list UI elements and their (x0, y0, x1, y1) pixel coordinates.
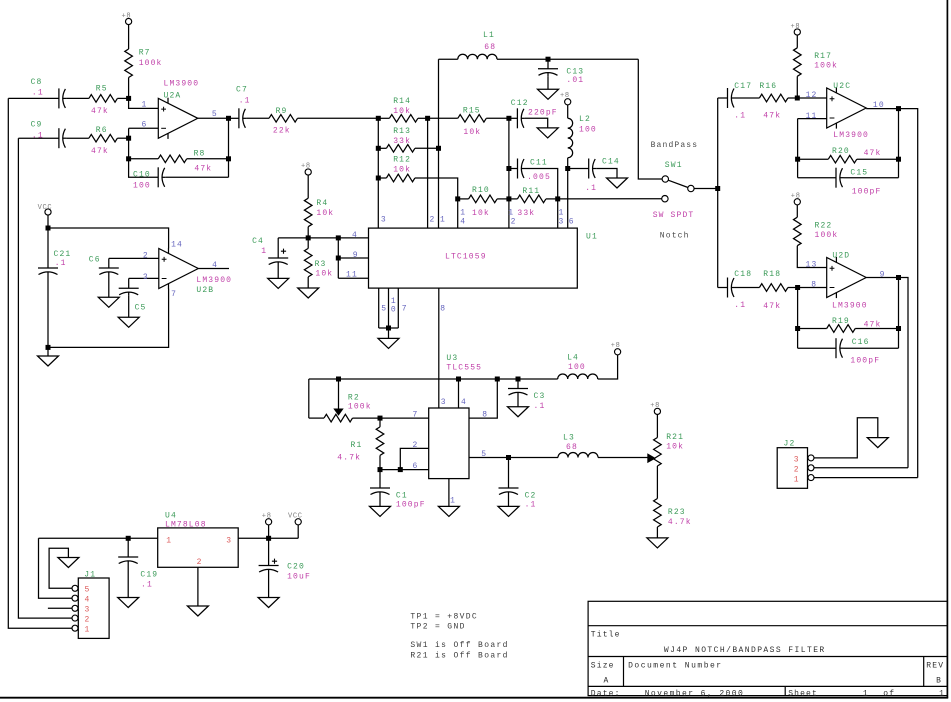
svg-text:68: 68 (566, 443, 578, 452)
wire (379, 327, 399, 329)
wire (128, 25, 130, 49)
title block frame (588, 601, 947, 695)
resistor R23 (654, 499, 662, 528)
wire (298, 117, 379, 119)
svg-text:J2: J2 (784, 440, 796, 449)
svg-text:2: 2 (430, 216, 436, 225)
ground (38, 356, 59, 366)
wire (469, 379, 497, 418)
svg-text:R8: R8 (194, 149, 206, 158)
svg-text:1: 1 (460, 209, 466, 218)
junction (376, 116, 381, 121)
wire (509, 198, 518, 200)
wire (128, 278, 130, 288)
wire (415, 178, 458, 199)
ground (438, 506, 459, 516)
wire (380, 417, 429, 419)
wire (109, 257, 159, 259)
svg-text:47k: 47k (91, 147, 109, 156)
svg-text:C4: C4 (252, 237, 264, 246)
wire (379, 470, 381, 488)
wire (899, 278, 909, 468)
svg-text:3: 3 (794, 456, 800, 465)
wire (308, 379, 310, 418)
wire (268, 538, 270, 565)
svg-text:220pF: 220pF (528, 109, 558, 118)
svg-text:5: 5 (481, 450, 487, 459)
svg-text:68: 68 (484, 43, 496, 52)
capacitor C5 (119, 287, 139, 289)
svg-text:C11: C11 (530, 159, 548, 168)
wire (66, 137, 89, 139)
svg-text:100k: 100k (139, 59, 163, 68)
svg-text:2: 2 (197, 558, 203, 567)
wire (814, 418, 878, 458)
ground (118, 317, 139, 327)
svg-text:C9: C9 (31, 121, 43, 130)
IC U3 TLC555 (429, 408, 469, 479)
junction (378, 467, 383, 472)
svg-text:R13: R13 (393, 127, 411, 136)
wire (798, 118, 827, 120)
svg-text:C19: C19 (140, 570, 158, 579)
svg-text:10uF: 10uF (287, 573, 311, 582)
resistor R7 (125, 49, 133, 77)
svg-text:U2D: U2D (832, 252, 850, 261)
svg-text:WJ4P NOTCH/BANDPASS FILTER: WJ4P NOTCH/BANDPASS FILTER (664, 646, 826, 655)
svg-text:R6: R6 (96, 126, 108, 135)
wire (117, 137, 128, 139)
wire (117, 97, 128, 99)
wire (108, 258, 110, 268)
svg-text:9: 9 (880, 271, 886, 280)
ground (498, 506, 519, 516)
wire (129, 159, 159, 178)
power VCC (U2B) (45, 209, 51, 215)
svg-text:10: 10 (873, 101, 885, 110)
wire (798, 328, 827, 330)
junction (456, 377, 461, 382)
junction (378, 416, 383, 421)
junction (715, 186, 720, 191)
ground (268, 278, 289, 288)
svg-text:.1: .1 (32, 88, 44, 97)
wire (307, 277, 309, 288)
wire (844, 347, 899, 349)
wire (509, 117, 518, 119)
svg-text:4: 4 (460, 217, 466, 226)
wire (39, 537, 158, 539)
svg-text:8: 8 (440, 305, 446, 314)
wire (238, 537, 298, 539)
wire (378, 177, 386, 179)
svg-text:.1: .1 (534, 402, 546, 411)
wire (197, 567, 199, 606)
wire (438, 59, 440, 228)
inductor L4 (558, 374, 598, 379)
wire (129, 158, 159, 160)
wire (388, 288, 390, 328)
svg-text:C17: C17 (734, 82, 752, 91)
svg-text:+8: +8 (611, 342, 621, 350)
page border bottom (0, 697, 948, 699)
svg-text:R21: R21 (666, 433, 684, 442)
junction (336, 377, 341, 382)
ground (537, 128, 558, 138)
svg-text:6: 6 (569, 217, 575, 226)
svg-text:of: of (883, 689, 895, 698)
svg-text:R1: R1 (351, 441, 363, 450)
wire (428, 117, 458, 119)
junction (506, 166, 511, 171)
junction (506, 455, 511, 460)
svg-text:10k: 10k (463, 128, 481, 137)
svg-text:C10: C10 (133, 170, 151, 179)
svg-text:L3: L3 (563, 434, 575, 443)
wire (337, 238, 339, 278)
wire (129, 127, 159, 129)
ground (508, 407, 529, 417)
svg-text:LM78L08: LM78L08 (165, 520, 207, 529)
ground (370, 506, 391, 516)
wire (198, 268, 229, 270)
connector J2 (777, 448, 807, 489)
svg-text:4: 4 (212, 261, 218, 270)
svg-text:1: 1 (261, 247, 267, 256)
junction (795, 157, 800, 162)
wire (797, 288, 799, 349)
svg-text:SW1: SW1 (665, 161, 683, 170)
wire (798, 158, 829, 160)
wire (308, 237, 338, 239)
svg-text:100k: 100k (814, 62, 838, 71)
wire (735, 287, 759, 289)
svg-text:10k: 10k (316, 209, 334, 218)
junction (896, 157, 901, 162)
wire (48, 228, 169, 248)
svg-text:R19: R19 (832, 317, 850, 326)
wire (557, 199, 559, 228)
svg-text:2: 2 (143, 251, 149, 260)
wire (8, 97, 59, 99)
wire (448, 479, 450, 507)
svg-text:+8: +8 (650, 402, 660, 410)
junction (226, 116, 231, 121)
op-amp U2A (158, 98, 198, 138)
wire (857, 158, 899, 160)
wire (567, 169, 569, 229)
svg-text:100pF: 100pF (850, 357, 880, 366)
wire (278, 237, 308, 239)
junction (226, 156, 231, 161)
svg-text:R18: R18 (763, 270, 781, 279)
svg-text:R22: R22 (815, 221, 833, 230)
svg-text:1: 1 (85, 626, 91, 635)
svg-text:LTC1059: LTC1059 (445, 253, 487, 262)
svg-text:.1: .1 (239, 97, 251, 106)
wire (378, 117, 389, 119)
wire (18, 137, 59, 139)
wire (796, 35, 798, 48)
svg-text:November 6, 2000: November 6, 2000 (645, 689, 745, 698)
wire (127, 565, 129, 598)
svg-text:R16: R16 (759, 82, 777, 91)
wire (48, 289, 169, 348)
wire (66, 97, 89, 99)
wire (567, 158, 569, 169)
wire (497, 198, 509, 200)
svg-text:10k: 10k (315, 270, 333, 279)
wire (735, 97, 759, 99)
power +8 (R21) (654, 408, 660, 414)
wire (379, 455, 381, 469)
svg-text:100pF: 100pF (396, 500, 426, 509)
wire (517, 396, 519, 407)
wire (525, 169, 558, 199)
wire (128, 128, 130, 159)
wire (307, 175, 309, 198)
junction (425, 116, 430, 121)
wire (47, 347, 49, 356)
svg-text:R5: R5 (96, 84, 108, 93)
svg-text:13: 13 (806, 261, 818, 270)
svg-text:C1: C1 (396, 492, 408, 501)
wire (898, 278, 900, 349)
wire (797, 119, 799, 178)
svg-text:R9: R9 (276, 107, 288, 116)
wire (229, 117, 239, 119)
svg-text:+8: +8 (791, 23, 801, 31)
svg-text:U2A: U2A (164, 91, 182, 100)
svg-text:7: 7 (402, 305, 408, 314)
junction (306, 235, 311, 240)
svg-text:1: 1 (508, 209, 514, 218)
wire (656, 415, 658, 438)
wire (558, 198, 662, 200)
svg-text:1: 1 (863, 689, 869, 698)
svg-text:Notch: Notch (660, 231, 690, 240)
wire (338, 237, 368, 239)
svg-text:C20: C20 (287, 563, 305, 572)
wire (525, 118, 548, 128)
svg-text:6: 6 (142, 120, 148, 129)
wire (567, 105, 569, 118)
svg-text:1: 1 (939, 689, 945, 698)
svg-text:11: 11 (806, 112, 818, 121)
wire (798, 287, 827, 289)
svg-text:R7: R7 (139, 49, 151, 58)
svg-text:100: 100 (568, 363, 586, 372)
svg-text:LM3900: LM3900 (832, 301, 868, 310)
junction (46, 226, 51, 231)
svg-text:B: B (936, 676, 942, 685)
junction (795, 285, 800, 290)
wire (596, 169, 617, 179)
svg-text:1: 1 (559, 209, 565, 218)
svg-text:3: 3 (85, 606, 91, 615)
wire (307, 238, 309, 249)
ground (187, 606, 208, 616)
svg-text:R2: R2 (348, 394, 360, 403)
wire (547, 76, 549, 89)
wire (48, 607, 72, 609)
svg-text:.1: .1 (734, 301, 746, 310)
junction (455, 196, 460, 201)
wire (268, 573, 270, 598)
junction (386, 326, 391, 331)
svg-text:14: 14 (171, 241, 183, 250)
ground (58, 558, 79, 568)
wire (377, 118, 379, 228)
svg-text:C21: C21 (54, 250, 72, 259)
wire (307, 227, 309, 238)
wire (128, 78, 130, 99)
junction (795, 96, 800, 101)
wire (796, 76, 798, 98)
wire (277, 238, 279, 258)
svg-text:.1: .1 (55, 259, 67, 268)
svg-text:10k: 10k (472, 209, 490, 218)
wire (458, 198, 469, 200)
svg-text:5: 5 (85, 586, 91, 595)
junction (126, 136, 131, 141)
svg-text:U3: U3 (446, 354, 458, 363)
op-amp U2C (827, 88, 867, 128)
svg-text:R12: R12 (393, 155, 411, 164)
wire (638, 59, 662, 179)
ground (118, 598, 139, 608)
wire (47, 276, 49, 348)
junction (495, 377, 500, 382)
wire (246, 117, 269, 119)
wire (788, 287, 798, 289)
svg-text:U2C: U2C (833, 82, 851, 91)
junction (376, 176, 381, 181)
wire (47, 215, 49, 228)
wire (47, 228, 49, 268)
wire (469, 457, 509, 459)
wire (855, 328, 898, 330)
junction (896, 106, 901, 111)
wire (718, 97, 728, 99)
svg-text:SW1 is Off Board: SW1 is Off Board (410, 641, 508, 650)
svg-text:Document Number: Document Number (628, 662, 723, 671)
svg-text:22k: 22k (273, 127, 291, 136)
R21 wiper arrow (647, 453, 656, 463)
wire (187, 158, 229, 160)
svg-text:A: A (604, 676, 610, 685)
wire (718, 287, 728, 289)
svg-text:VCC: VCC (38, 204, 53, 212)
wire (899, 109, 918, 478)
connector J1 (78, 578, 109, 638)
wire (379, 418, 381, 427)
wire (380, 469, 429, 471)
wire (309, 417, 324, 419)
svg-text:Size: Size (591, 662, 615, 671)
page border right (946, 0, 948, 698)
junction (336, 235, 341, 240)
junction (266, 536, 271, 541)
svg-text:.01: .01 (566, 76, 584, 85)
junction (516, 377, 521, 382)
power +8 (R22) (794, 199, 800, 205)
svg-text:+8: +8 (122, 13, 132, 21)
svg-text:REV: REV (926, 662, 944, 671)
wire (844, 177, 899, 179)
svg-text:7: 7 (413, 411, 419, 420)
wire (268, 525, 270, 538)
wire (198, 117, 229, 119)
svg-text:33k: 33k (393, 137, 411, 146)
svg-text:2: 2 (511, 217, 517, 226)
op-amp U2D (827, 258, 867, 298)
svg-text:100k: 100k (815, 231, 839, 240)
wire (129, 277, 159, 279)
svg-text:1: 1 (794, 475, 800, 484)
wire (814, 467, 908, 469)
wire (128, 296, 130, 318)
junction (795, 326, 800, 331)
junction (46, 345, 51, 350)
svg-text:.005: .005 (527, 173, 551, 182)
svg-text:4.7k: 4.7k (337, 454, 361, 463)
svg-text:C5: C5 (135, 304, 147, 313)
svg-text:100: 100 (133, 181, 151, 190)
svg-text:LM3900: LM3900 (833, 131, 869, 140)
svg-text:47k: 47k (763, 302, 781, 311)
svg-text:47k: 47k (864, 320, 882, 329)
svg-text:+8: +8 (560, 92, 570, 100)
wire (598, 355, 618, 379)
wire (439, 58, 458, 60)
capacitor C9 (58, 128, 60, 148)
wire (228, 118, 230, 177)
svg-text:L2: L2 (579, 115, 591, 124)
wire (656, 527, 658, 538)
wire (788, 97, 797, 99)
svg-text:R4: R4 (316, 199, 328, 208)
svg-text:L1: L1 (483, 31, 495, 40)
svg-text:C2: C2 (525, 492, 537, 501)
svg-text:.1: .1 (585, 184, 597, 193)
wire (338, 379, 340, 409)
svg-text:C3: C3 (534, 392, 546, 401)
svg-text:SW SPDT: SW SPDT (653, 211, 695, 220)
wire (297, 525, 299, 538)
svg-text:U1: U1 (586, 233, 598, 242)
wire (309, 378, 558, 380)
svg-text:R20: R20 (832, 147, 850, 156)
svg-text:12: 12 (806, 91, 818, 100)
power +8 (L2) (565, 99, 571, 105)
wire (418, 117, 428, 119)
switch SW1 (662, 176, 668, 182)
svg-text:R23: R23 (668, 508, 686, 517)
power +8 (L4) (615, 349, 621, 355)
svg-text:100pF: 100pF (852, 188, 882, 197)
svg-text:+8: +8 (301, 162, 311, 170)
wire (866, 108, 898, 110)
IC U1 LTC1059 (369, 228, 578, 288)
power +8 (R7) (126, 18, 132, 24)
svg-text:L4: L4 (567, 354, 579, 363)
wire (129, 98, 159, 108)
svg-text:47k: 47k (763, 112, 781, 121)
svg-text:Sheet: Sheet (788, 689, 818, 698)
wire (378, 288, 380, 328)
wire (796, 205, 798, 217)
